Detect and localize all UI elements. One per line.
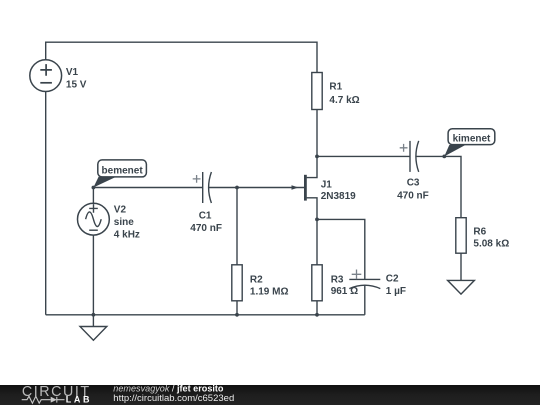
svg-text:15 V: 15 V [66,79,87,90]
svg-text:http://circuitlab.com/c6523ed: http://circuitlab.com/c6523ed [113,393,234,404]
svg-text:R2: R2 [250,274,263,285]
svg-text:1.19 MΩ: 1.19 MΩ [250,286,289,297]
svg-text:5.08 kΩ: 5.08 kΩ [473,239,509,250]
svg-text:bemenet: bemenet [102,166,144,177]
svg-text:sine: sine [114,217,134,228]
svg-text:R1: R1 [329,81,342,92]
svg-text:2N3819: 2N3819 [321,191,356,202]
svg-text:4.7 kΩ: 4.7 kΩ [329,95,359,106]
svg-text:R6: R6 [473,226,486,237]
svg-text:R3: R3 [331,274,344,285]
svg-text:C1: C1 [199,210,212,221]
svg-text:1 µF: 1 µF [386,286,406,297]
svg-text:J1: J1 [321,180,333,191]
svg-text:LAB: LAB [66,395,92,405]
svg-text:nemesvagyok / jfet erosito: nemesvagyok / jfet erosito [113,384,224,394]
svg-text:V1: V1 [66,67,79,78]
svg-text:C2: C2 [386,273,399,284]
svg-text:470 nF: 470 nF [190,223,222,234]
svg-text:V2: V2 [114,204,127,215]
svg-text:4 kHz: 4 kHz [114,229,140,240]
svg-text:961 Ω: 961 Ω [331,286,358,297]
svg-text:470 nF: 470 nF [397,191,429,202]
svg-text:kimenet: kimenet [453,133,491,144]
svg-text:C3: C3 [407,177,420,188]
